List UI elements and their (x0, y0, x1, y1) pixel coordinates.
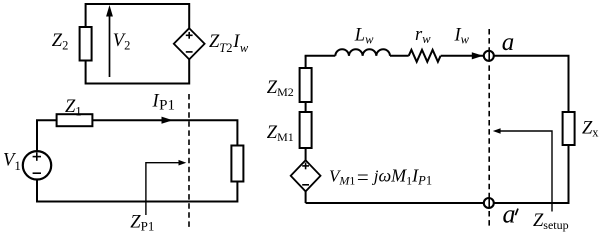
impedance ZM1 (300, 112, 312, 148)
polarity - of VM1 source (302, 184, 309, 186)
svg-text:V1: V1 (3, 151, 21, 174)
svg-text:Z1: Z1 (65, 97, 82, 119)
svg-text:Lw: Lw (354, 26, 374, 47)
source V1 (circle) (23, 151, 51, 179)
polarity + of ZT2Iw source (186, 32, 193, 39)
node a' (terminal circle) (484, 198, 494, 208)
dependent source VM1 (diamond) (291, 160, 321, 191)
impedance Zx (563, 112, 575, 145)
dependent source ZT2Iw (diamond) (174, 28, 205, 59)
wire loop right and bottom (node a to Zx to node a') (306, 56, 569, 203)
impedance ZM2 (300, 68, 312, 102)
polarity - of ZT2Iw source (186, 51, 193, 53)
wire resistor to node a (441, 55, 485, 57)
wire between inductor and resistor (390, 55, 409, 57)
impedance Z2 (80, 27, 92, 61)
svg-text:VM1=jωM1IP1: VM1=jωM1IP1 (329, 165, 432, 189)
pointer Zsetup (leader line with arrow) (493, 128, 552, 211)
arrow Iw (current arrow) (472, 52, 483, 59)
svg-text:a: a (502, 29, 515, 56)
wire top-left corner to inductor (305, 55, 336, 57)
wire loop secondary circuit (top-left) (86, 4, 190, 84)
svg-text:V2: V2 (113, 31, 131, 53)
prime mark of a' (515, 209, 518, 216)
dashed line segment crossing node a' (488, 199, 490, 208)
pointer ZP1 (leader line with arrow) (146, 160, 186, 215)
arrow IP1 (current arrow) (162, 117, 173, 124)
arrow V2 (voltage arrow) (106, 5, 113, 77)
inductor Lw (335, 49, 390, 56)
svg-text:Zsetup: Zsetup (533, 211, 569, 232)
svg-text:Zx: Zx (582, 119, 599, 140)
svg-text:a: a (503, 200, 516, 229)
svg-text:ZM2: ZM2 (267, 78, 294, 99)
dashed line P1 port boundary (left) (188, 94, 190, 228)
dashed line a-a' port boundary (right) (488, 29, 490, 228)
resistor rw (409, 50, 441, 62)
svg-text:ZP1: ZP1 (130, 213, 154, 234)
polarity + of V1 (33, 152, 41, 160)
node a (terminal circle) (484, 51, 494, 61)
svg-text:rw: rw (415, 25, 431, 46)
dashed line segment crossing node a (488, 51, 490, 60)
impedance Z1 (57, 114, 93, 126)
impedance load of P1 (unlabeled box) (231, 146, 243, 182)
polarity + of VM1 source (302, 163, 309, 170)
wire loop primary circuit (bottom-left) (37, 120, 237, 201)
wire left vertical (measurement circuit) (305, 56, 307, 203)
svg-text:IP1: IP1 (152, 92, 176, 114)
svg-text:Iw: Iw (454, 26, 470, 47)
svg-text:Z2: Z2 (52, 31, 69, 53)
polarity - of V1 (33, 172, 41, 174)
svg-text:ZT2Iw: ZT2Iw (209, 32, 249, 55)
svg-text:ZM1: ZM1 (267, 123, 294, 144)
